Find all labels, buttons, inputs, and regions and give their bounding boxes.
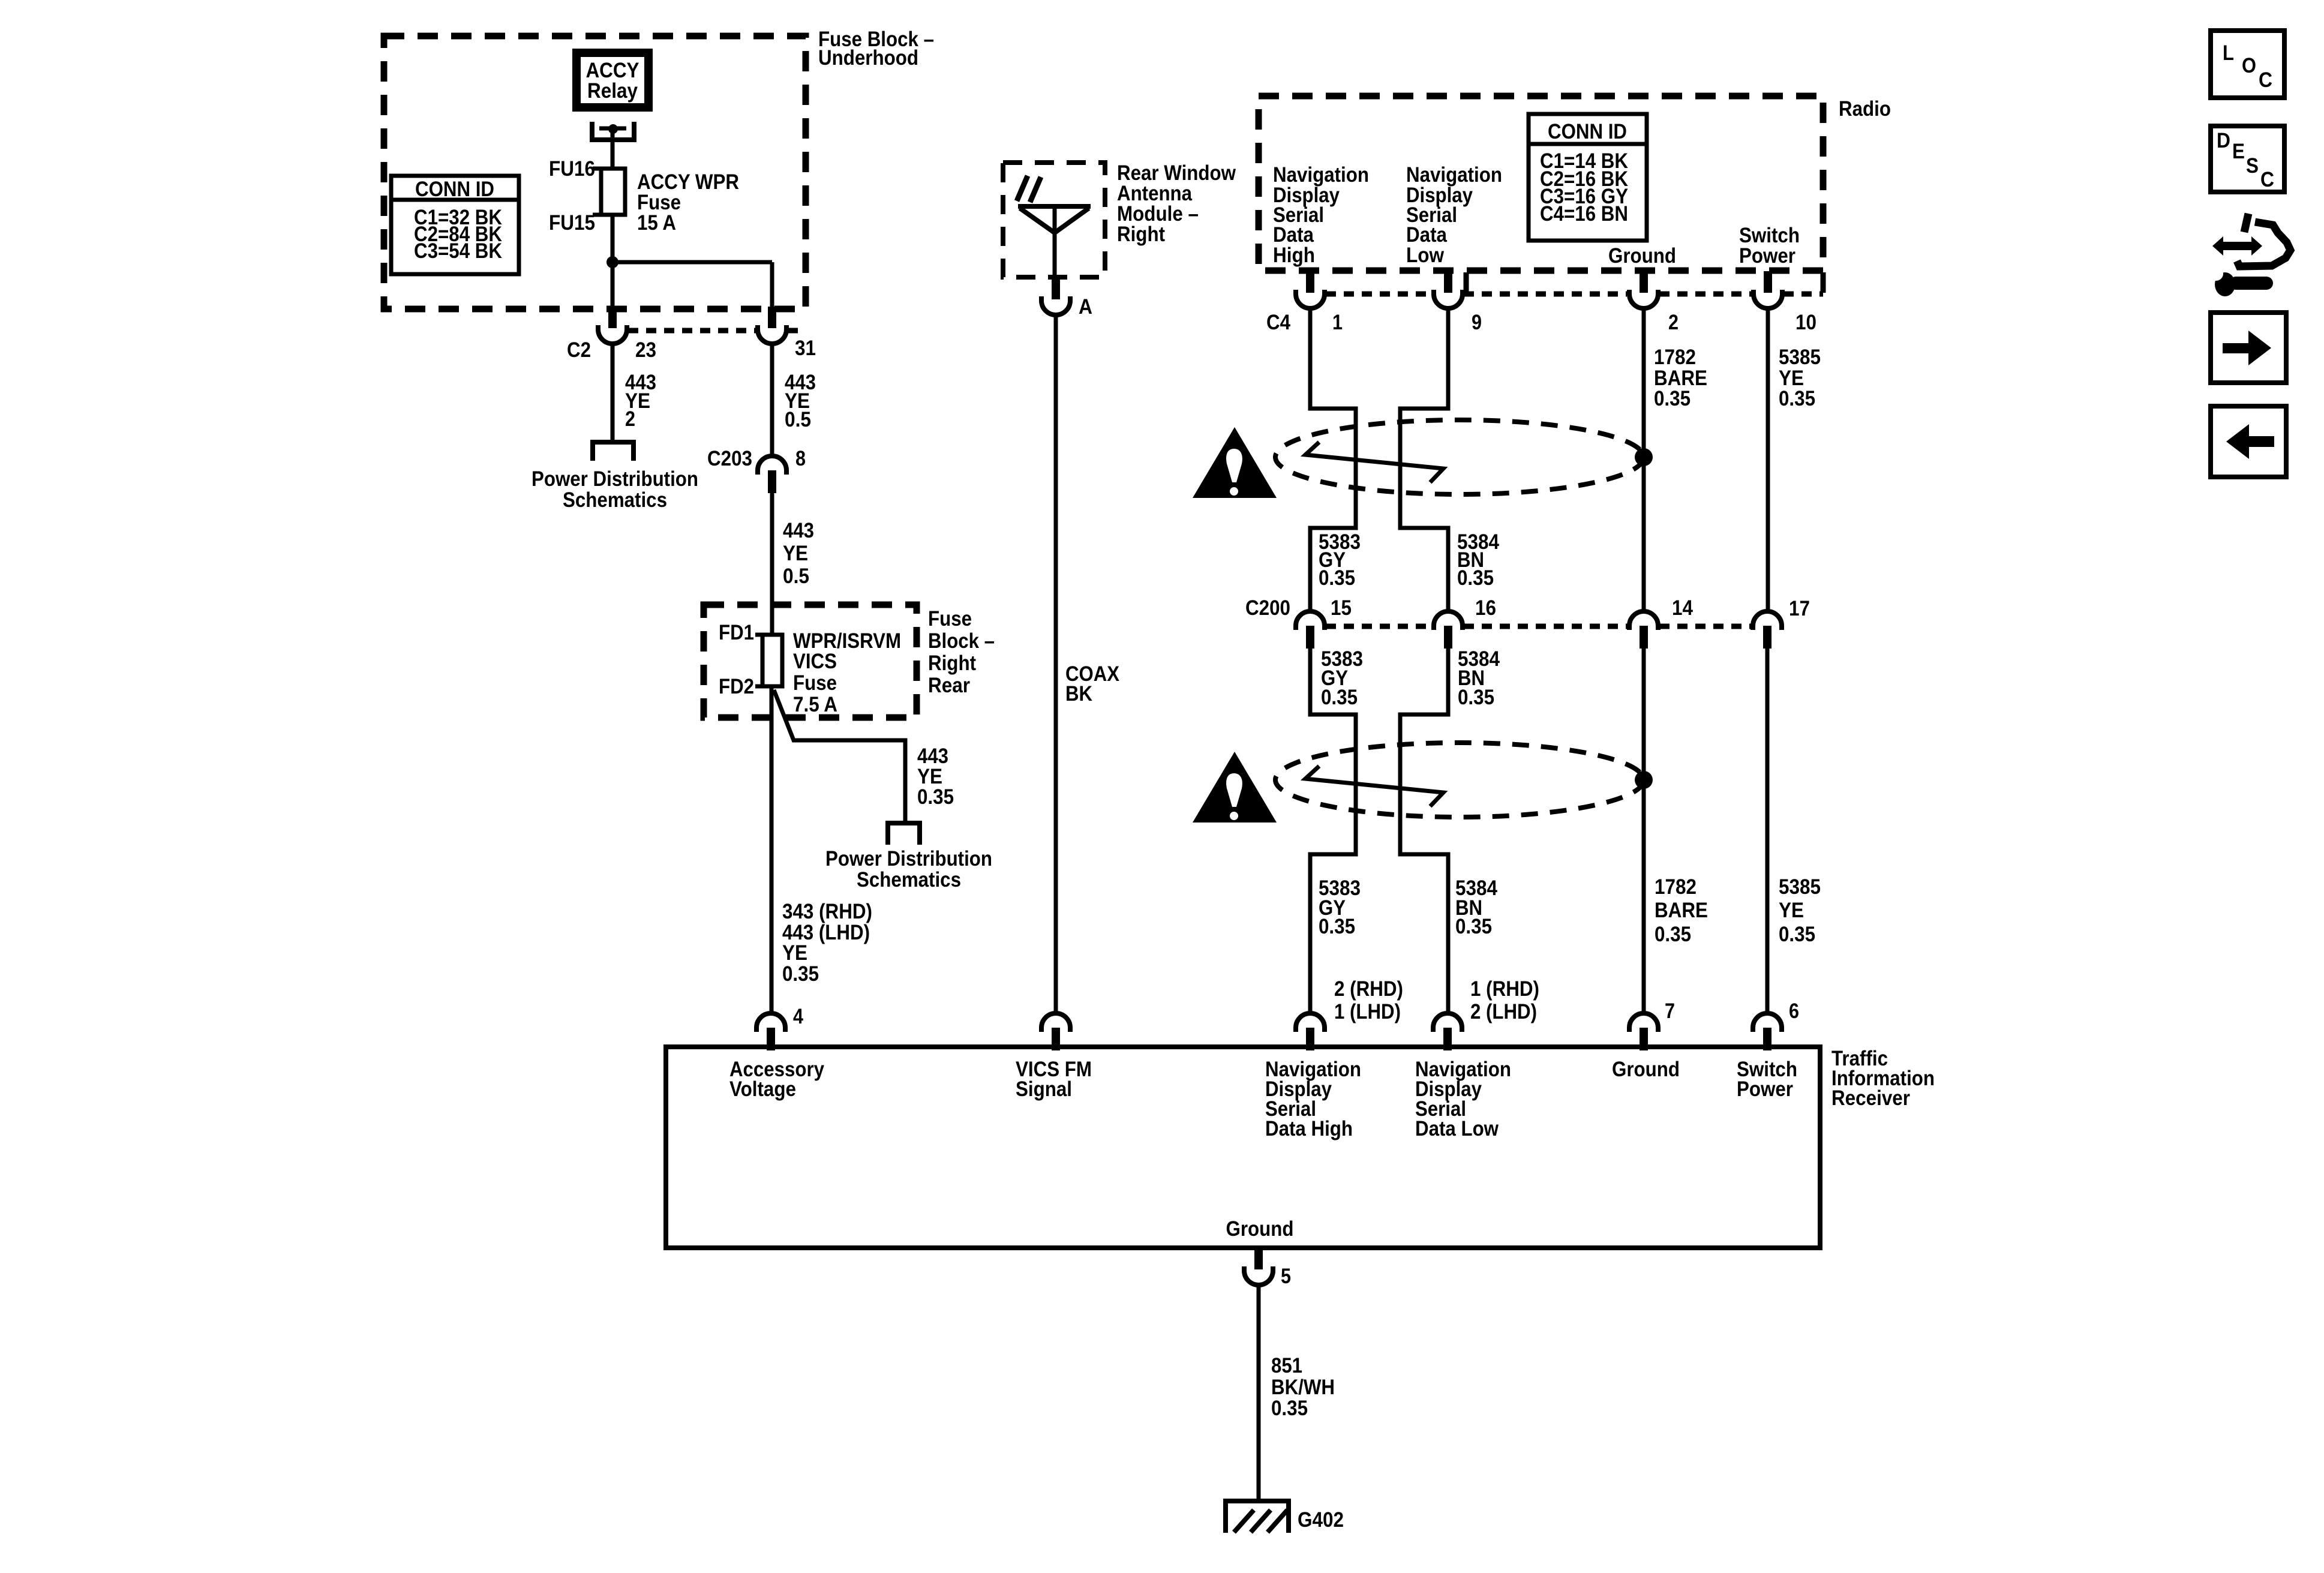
svg-text:1 (RHD): 1 (RHD) (1470, 977, 1539, 1001)
svg-text:7: 7 (1665, 999, 1675, 1023)
svg-text:4: 4 (793, 1005, 803, 1028)
svg-text:C: C (2260, 168, 2274, 191)
svg-text:Power: Power (1739, 244, 1795, 268)
svg-text:Power Distribution: Power Distribution (825, 847, 992, 870)
svg-text:0.35: 0.35 (1655, 923, 1691, 946)
svg-text:9: 9 (1472, 311, 1482, 334)
svg-text:0.35: 0.35 (782, 962, 819, 986)
svg-text:Receiver: Receiver (1831, 1086, 1910, 1110)
svg-text:Data High: Data High (1265, 1117, 1353, 1140)
svg-text:C4=16 BN: C4=16 BN (1540, 202, 1628, 226)
svg-text:Power: Power (1737, 1077, 1793, 1101)
svg-text:0.35: 0.35 (917, 785, 954, 809)
svg-text:0.35: 0.35 (1321, 686, 1358, 709)
svg-text:Fuse: Fuse (928, 607, 972, 631)
svg-text:L: L (2223, 41, 2234, 65)
svg-text:0.35: 0.35 (1455, 915, 1492, 938)
svg-text:1782: 1782 (1655, 875, 1697, 899)
svg-text:D: D (2217, 129, 2230, 152)
svg-text:2: 2 (625, 407, 635, 431)
svg-text:Low: Low (1406, 244, 1445, 267)
svg-text:Ground: Ground (1608, 244, 1676, 268)
svg-text:C2: C2 (567, 338, 591, 362)
svg-text:Relay: Relay (587, 79, 638, 103)
svg-text:2 (RHD): 2 (RHD) (1334, 977, 1403, 1001)
svg-text:5385: 5385 (1779, 875, 1821, 899)
svg-text:15 A: 15 A (637, 211, 676, 235)
svg-text:5385: 5385 (1779, 346, 1821, 369)
svg-text:VICS: VICS (793, 650, 837, 673)
svg-text:Power Distribution: Power Distribution (532, 467, 698, 491)
svg-text:0.35: 0.35 (1458, 686, 1494, 709)
svg-text:443: 443 (783, 519, 814, 542)
svg-text:High: High (1273, 244, 1315, 267)
svg-text:CONN ID: CONN ID (1548, 120, 1627, 143)
svg-text:BARE: BARE (1655, 899, 1708, 922)
svg-text:Ground: Ground (1226, 1217, 1294, 1241)
svg-text:2: 2 (1668, 311, 1679, 334)
svg-text:1 (LHD): 1 (LHD) (1334, 1000, 1401, 1023)
svg-text:CONN ID: CONN ID (415, 178, 494, 201)
svg-text:Schematics: Schematics (563, 488, 667, 512)
svg-text:851: 851 (1271, 1354, 1302, 1377)
svg-text:S: S (2246, 154, 2259, 178)
svg-text:0.35: 0.35 (1779, 387, 1815, 410)
svg-text:C3=54 BK: C3=54 BK (414, 239, 502, 263)
svg-text:15: 15 (1331, 596, 1352, 620)
svg-text:Block –: Block – (928, 629, 995, 653)
svg-text:O: O (2242, 54, 2256, 77)
svg-text:Underhood: Underhood (818, 46, 918, 70)
svg-text:BK/WH: BK/WH (1271, 1376, 1335, 1399)
svg-text:C: C (2259, 68, 2272, 92)
svg-text:5: 5 (1281, 1265, 1291, 1288)
svg-text:Right: Right (928, 652, 976, 675)
svg-text:C203: C203 (707, 447, 752, 470)
svg-text:343 (RHD): 343 (RHD) (782, 900, 872, 923)
svg-text:FU16: FU16 (549, 157, 595, 181)
svg-text:0.35: 0.35 (1319, 915, 1355, 938)
svg-text:0.35: 0.35 (1271, 1397, 1308, 1420)
svg-text:YE: YE (1779, 899, 1804, 922)
svg-text:0.5: 0.5 (783, 565, 809, 588)
svg-text:6: 6 (1789, 999, 1799, 1023)
svg-text:FD1: FD1 (719, 621, 754, 644)
svg-text:17: 17 (1789, 597, 1810, 620)
svg-text:YE: YE (782, 941, 807, 965)
svg-text:Signal: Signal (1016, 1077, 1072, 1101)
svg-text:G402: G402 (1298, 1508, 1344, 1532)
svg-text:8: 8 (795, 447, 806, 470)
svg-text:Right: Right (1117, 223, 1165, 246)
svg-text:A: A (1079, 295, 1092, 319)
svg-text:1: 1 (1332, 311, 1343, 334)
svg-text:16: 16 (1475, 596, 1496, 620)
svg-text:0.35: 0.35 (1319, 566, 1355, 590)
svg-text:Voltage: Voltage (729, 1077, 796, 1101)
svg-text:Data Low: Data Low (1415, 1117, 1499, 1140)
svg-text:7.5 A: 7.5 A (793, 693, 837, 716)
svg-text:FU15: FU15 (549, 211, 595, 235)
svg-text:BK: BK (1065, 682, 1092, 706)
svg-text:0.35: 0.35 (1779, 923, 1815, 946)
svg-text:Ground: Ground (1612, 1058, 1680, 1081)
svg-text:31: 31 (795, 337, 816, 360)
svg-text:FD2: FD2 (719, 675, 754, 698)
svg-text:0.35: 0.35 (1654, 387, 1691, 410)
svg-text:C200: C200 (1245, 596, 1290, 620)
svg-text:Rear: Rear (928, 674, 970, 697)
svg-text:10: 10 (1795, 311, 1816, 334)
svg-text:0.5: 0.5 (785, 408, 811, 431)
svg-text:0.35: 0.35 (1457, 566, 1494, 590)
svg-text:Fuse: Fuse (793, 671, 837, 695)
svg-text:23: 23 (635, 338, 656, 362)
svg-text:C4: C4 (1266, 311, 1290, 334)
svg-text:Radio: Radio (1839, 97, 1891, 121)
svg-text:Schematics: Schematics (857, 868, 961, 891)
svg-text:YE: YE (783, 542, 808, 565)
svg-text:E: E (2232, 140, 2245, 163)
svg-text:1782: 1782 (1654, 346, 1696, 369)
svg-text:2 (LHD): 2 (LHD) (1470, 1000, 1537, 1023)
svg-text:14: 14 (1672, 596, 1693, 620)
